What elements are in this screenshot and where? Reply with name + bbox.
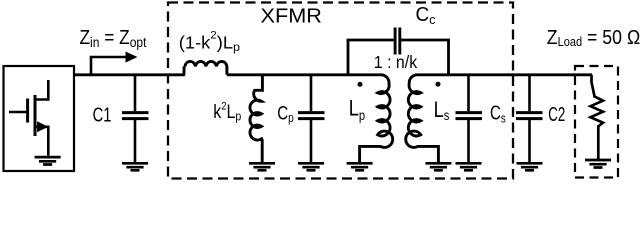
XFMR label — [261, 6, 322, 28]
series inductor label (1-k2)Lp — [179, 30, 241, 55]
XFMR dashed box — [168, 3, 513, 179]
capacitor C1 plates — [122, 113, 149, 119]
Lp label — [349, 95, 365, 123]
Cp label — [277, 102, 294, 125]
capacitor C1 top lead — [134, 75, 137, 111]
svg-text:ZLoad = 50 Ω: ZLoad = 50 Ω — [547, 27, 640, 49]
capacitor C2 plates — [516, 113, 543, 119]
svg-text:Lp: Lp — [349, 95, 365, 123]
capacitor Cs bottom lead — [467, 120, 470, 163]
capacitor Cp bottom lead — [310, 120, 313, 163]
ground (Ls) — [425, 163, 451, 170]
wire: drain node to series inductor — [74, 73, 185, 76]
Cc bridge right wire — [401, 39, 450, 42]
ZLoad label — [547, 27, 640, 49]
Ls label — [434, 97, 450, 123]
Cc label — [416, 4, 436, 27]
transistor Q1 source arrow — [37, 121, 48, 132]
k2Lp label — [213, 100, 241, 123]
ground (Cs) — [456, 163, 482, 170]
transistor box (source device) — [4, 66, 75, 171]
svg-text:Zin = Zopt: Zin = Zopt — [80, 27, 147, 50]
turns ratio label 1 : n/k — [374, 52, 418, 72]
Cs label — [490, 102, 506, 125]
ground (Rload) — [585, 160, 611, 168]
Cc left riser wire — [347, 40, 350, 75]
inductor Lp (primary) — [360, 75, 393, 163]
ground (Cp) — [298, 163, 324, 170]
svg-text:Cp: Cp — [277, 102, 294, 125]
capacitor C2 top lead — [528, 75, 531, 111]
svg-text:Cs: Cs — [490, 102, 506, 125]
ground (C1) — [122, 163, 148, 170]
capacitor Cc plates — [395, 28, 400, 55]
transistor Q1 drain lead — [35, 80, 48, 100]
capacitor Cp top lead — [310, 75, 313, 111]
capacitor C1 bottom lead — [134, 120, 137, 163]
transistor Q1 gate lead — [9, 111, 28, 114]
C1 label — [93, 104, 112, 126]
ground (k2Lp) — [249, 163, 275, 170]
wire: series inductor to primary node — [227, 73, 382, 76]
capacitor C2 bottom lead — [528, 120, 531, 163]
svg-text:k2Lp: k2Lp — [213, 100, 241, 123]
inductor Ls (secondary) — [406, 75, 439, 163]
capacitor Cs top lead — [467, 75, 470, 111]
svg-text:Ls: Ls — [434, 97, 450, 123]
svg-text:C2: C2 — [548, 104, 565, 126]
svg-text:C1: C1 — [93, 104, 112, 126]
node Zin label — [80, 27, 147, 50]
transistor Q1 source lead — [35, 127, 48, 156]
ground (C2) — [517, 163, 543, 170]
transistor Q1 gate bar — [26, 99, 29, 123]
series inductor (1-k2)Lp — [184, 61, 227, 74]
transistor Q1 channel bar — [34, 95, 37, 136]
Cc bridge left wire — [347, 39, 394, 42]
capacitor Cp plates — [298, 113, 325, 119]
secondary dot — [436, 82, 441, 87]
svg-text:Cc: Cc — [416, 4, 436, 27]
capacitor Cs plates — [456, 113, 483, 119]
shunt inductor k2Lp — [250, 75, 262, 163]
svg-text:(1-k2)Lp: (1-k2)Lp — [179, 30, 241, 55]
Zin arrow — [91, 52, 138, 75]
load dashed box — [575, 66, 618, 178]
ground (transistor source) — [35, 157, 61, 164]
primary dot — [358, 82, 363, 87]
C2 label — [548, 104, 565, 126]
resistor Rload — [591, 75, 604, 160]
svg-text:1 : n/k: 1 : n/k — [374, 52, 418, 72]
wire: secondary node to load — [417, 73, 592, 76]
svg-text:XFMR: XFMR — [261, 6, 322, 28]
ground (Lp) — [347, 163, 373, 170]
Cc right riser wire — [447, 40, 450, 75]
